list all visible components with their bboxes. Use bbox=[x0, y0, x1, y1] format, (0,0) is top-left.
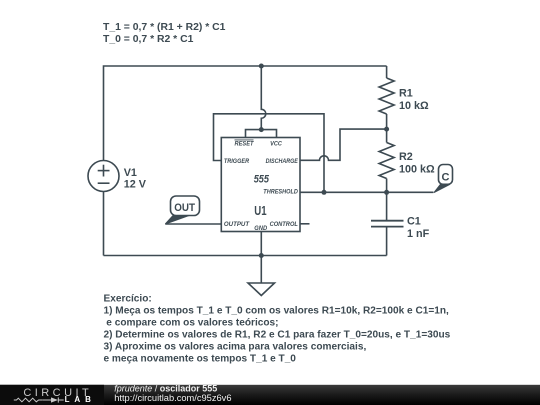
resistor R1 bbox=[379, 78, 394, 114]
wire top rail bbox=[104, 66, 387, 161]
wire R1 to junction bbox=[386, 114, 388, 143]
svg-text:R1: R1 bbox=[399, 87, 413, 99]
svg-text:C: C bbox=[442, 172, 450, 184]
logo waveform bbox=[14, 397, 64, 402]
node gnd rail bbox=[259, 253, 264, 258]
node R1/R2/discharge bbox=[384, 127, 389, 132]
svg-text:Exercício:: Exercício: bbox=[104, 294, 152, 305]
wire GND drop bbox=[260, 232, 262, 284]
svg-text:T_1 = 0,7 * (R1 + R2) * C1: T_1 = 0,7 * (R1 + R2) * C1 bbox=[103, 22, 226, 33]
svg-text:R2: R2 bbox=[399, 151, 413, 163]
svg-text:1 nF: 1 nF bbox=[407, 228, 430, 240]
wire R2 to threshold node bbox=[386, 179, 388, 221]
svg-text:TRIGGER: TRIGGER bbox=[224, 159, 250, 165]
svg-text:http://circuitlab.com/c95z6v6: http://circuitlab.com/c95z6v6 bbox=[114, 393, 231, 403]
flag OUT bbox=[165, 196, 199, 224]
node trigger/threshold bbox=[322, 190, 327, 195]
svg-text:THRESHOLD: THRESHOLD bbox=[263, 190, 298, 196]
op IC box U1 555 bbox=[221, 138, 300, 232]
wire C1 bottom lead bbox=[386, 227, 388, 256]
wire VCC drop with hop bbox=[261, 66, 266, 130]
svg-text:T_0 = 0,7 * R2 * C1: T_0 = 0,7 * R2 * C1 bbox=[103, 34, 194, 45]
svg-text:10 kΩ: 10 kΩ bbox=[399, 100, 429, 112]
svg-text:VCC: VCC bbox=[270, 141, 282, 147]
wire RESET-VCC bracket bbox=[246, 130, 277, 138]
svg-text:OUT: OUT bbox=[174, 202, 195, 214]
flag C node bbox=[434, 165, 453, 193]
capacitor C1 bbox=[371, 221, 404, 227]
svg-text:U1: U1 bbox=[254, 204, 266, 218]
wire bottom rail bbox=[104, 255, 387, 257]
resistor R2 bbox=[379, 143, 394, 179]
wire TRIGGER loop bbox=[214, 114, 325, 193]
svg-text:OUTPUT: OUTPUT bbox=[224, 222, 251, 228]
svg-text:2) Determine os valores de R1,: 2) Determine os valores de R1, R2 e C1 p… bbox=[104, 330, 451, 341]
node bracket bbox=[259, 127, 264, 132]
svg-text:DISCHARGE: DISCHARGE bbox=[266, 159, 299, 165]
svg-text:C1: C1 bbox=[407, 215, 421, 227]
svg-text:3) Aproxime os valores acima p: 3) Aproxime os valores acima para valore… bbox=[104, 342, 367, 353]
wire V1 bottom lead bbox=[103, 192, 105, 256]
svg-text:V1: V1 bbox=[124, 167, 137, 179]
svg-text:LAB: LAB bbox=[65, 395, 92, 404]
svg-text:555: 555 bbox=[254, 173, 270, 185]
svg-text:RESET: RESET bbox=[235, 141, 255, 147]
wire R1 top lead bbox=[386, 66, 388, 78]
wire CONTROL stub bbox=[300, 223, 310, 225]
wire DISCHARGE with hop bbox=[300, 129, 387, 160]
svg-text:12 V: 12 V bbox=[124, 179, 147, 191]
wire THRESHOLD bbox=[300, 191, 434, 193]
exercise text bbox=[104, 294, 451, 365]
ground bbox=[248, 283, 275, 296]
node C bbox=[384, 190, 389, 195]
svg-text:GND: GND bbox=[254, 226, 268, 232]
junction dots bbox=[259, 64, 389, 259]
svg-text:1) Meça os tempos T_1 e T_0 co: 1) Meça os tempos T_1 e T_0 com os valor… bbox=[104, 306, 450, 317]
svg-text:CONTROL: CONTROL bbox=[270, 222, 299, 228]
wire OUTPUT bbox=[165, 223, 221, 225]
node top rail tap bbox=[259, 64, 264, 69]
svg-text:e compare com os valores teóri: e compare com os valores teóricos; bbox=[106, 318, 278, 329]
svg-text:100 kΩ: 100 kΩ bbox=[399, 164, 435, 176]
svg-text:e meça novamente os tempos T_1: e meça novamente os tempos T_1 e T_0 bbox=[104, 354, 297, 365]
voltage source V1 bbox=[88, 161, 119, 192]
